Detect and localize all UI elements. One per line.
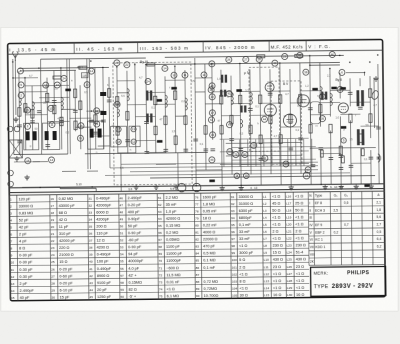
svg-text:L3: L3 bbox=[263, 209, 267, 213]
resistor bbox=[184, 116, 187, 125]
svg-text:31: 31 bbox=[88, 197, 92, 201]
chassis rail step bbox=[59, 187, 61, 189]
resistor bbox=[53, 76, 61, 79]
wire bbox=[310, 114, 330, 116]
wire bbox=[86, 110, 103, 112]
svg-text:68 Ω: 68 Ω bbox=[59, 211, 67, 215]
svg-text:M.F. 452 Kc/s: M.F. 452 Kc/s bbox=[271, 44, 304, 49]
table column group 5 labels (parts 61-75) bbox=[158, 196, 183, 299]
capacitor bbox=[248, 108, 253, 110]
svg-text:115: 115 bbox=[82, 74, 87, 78]
svg-text:18: 18 bbox=[117, 140, 121, 144]
svg-text:110 pF: 110 pF bbox=[96, 232, 108, 236]
svg-text:68: 68 bbox=[159, 245, 163, 249]
svg-text:18 Ω: 18 Ω bbox=[203, 216, 211, 220]
wire bbox=[300, 63, 301, 174]
resistor bbox=[361, 149, 364, 156]
shield box (dashed) bbox=[249, 67, 280, 151]
svg-text:100 pF: 100 pF bbox=[97, 260, 110, 264]
svg-text:84: 84 bbox=[196, 252, 200, 256]
svg-text:0,1 mF: 0,1 mF bbox=[203, 266, 216, 270]
wire bbox=[280, 63, 281, 185]
resistor bbox=[369, 89, 372, 98]
node callout 46 bbox=[329, 51, 335, 57]
wire bbox=[329, 69, 332, 117]
resistor bbox=[164, 116, 167, 125]
svg-text:4 · 13: 4 · 13 bbox=[250, 186, 258, 190]
chassis rail upper bbox=[22, 186, 60, 188]
left coil rail 2 bbox=[85, 152, 208, 153]
capacitor bbox=[163, 149, 168, 151]
svg-text:0,1 mF: 0,1 mF bbox=[239, 223, 252, 227]
capacitor bbox=[376, 127, 381, 129]
svg-text:<1 Ω: <1 Ω bbox=[296, 272, 304, 276]
wire bbox=[117, 92, 127, 94]
svg-text:13: 13 bbox=[85, 83, 89, 87]
wire bbox=[53, 71, 56, 122]
resistor bbox=[369, 114, 372, 123]
svg-text:50 Ω: 50 Ω bbox=[295, 208, 303, 212]
ground bbox=[13, 117, 18, 122]
svg-text:L22: L22 bbox=[286, 237, 291, 241]
wire bbox=[127, 104, 146, 106]
svg-text:0-30 pF: 0-30 pF bbox=[19, 275, 33, 279]
wire bbox=[155, 103, 175, 105]
capacitor (block) bbox=[236, 89, 242, 92]
svg-text:200 Ω: 200 Ω bbox=[96, 225, 106, 229]
svg-text:I. 13,5 - 45 m: I. 13,5 - 45 m bbox=[9, 47, 57, 53]
coil bbox=[117, 109, 119, 117]
node callout 50 bbox=[227, 149, 233, 155]
wire bbox=[370, 150, 372, 184]
antenna bbox=[12, 51, 18, 61]
junction bbox=[211, 63, 212, 64]
svg-text:L5: L5 bbox=[263, 223, 267, 227]
svg-text:15 pF: 15 pF bbox=[60, 295, 70, 299]
wire bbox=[25, 114, 47, 116]
svg-text:20 pF: 20 pF bbox=[97, 288, 107, 292]
svg-text:L9: L9 bbox=[264, 251, 268, 255]
svg-text:<1 Ω: <1 Ω bbox=[272, 216, 280, 220]
junction bbox=[377, 54, 378, 55]
wire bbox=[120, 153, 122, 191]
capacitor (block) bbox=[341, 126, 347, 129]
coil bbox=[32, 102, 34, 110]
capacitor bbox=[369, 157, 374, 159]
svg-text:5,6: 5,6 bbox=[377, 215, 382, 219]
svg-text:63: 63 bbox=[158, 210, 162, 214]
svg-text:220 Ω: 220 Ω bbox=[59, 246, 69, 250]
node callout 5 bbox=[341, 138, 346, 143]
svg-text:L21: L21 bbox=[286, 230, 291, 234]
svg-text:42: 42 bbox=[210, 118, 214, 122]
capacitor (block) bbox=[364, 184, 370, 187]
svg-text:III. 163 - 583 m: III. 163 - 583 m bbox=[140, 46, 190, 52]
header divider bbox=[137, 42, 139, 53]
svg-text:94 pF: 94 pF bbox=[128, 252, 138, 256]
ground bbox=[289, 185, 294, 190]
ground bbox=[323, 184, 328, 189]
svg-text:18: 18 bbox=[51, 211, 55, 215]
svg-text:96: 96 bbox=[231, 230, 235, 234]
node callout 38 bbox=[303, 69, 309, 75]
switch wafer box B bbox=[129, 126, 140, 147]
resistor bbox=[116, 97, 119, 106]
svg-text:MERK:: MERK: bbox=[314, 271, 329, 276]
svg-text:·5' +: ·5' + bbox=[129, 295, 137, 299]
svg-text:5,6: 5,6 bbox=[120, 166, 124, 170]
svg-text:33 mF: 33 mF bbox=[239, 237, 250, 241]
svg-text:<1 Ω: <1 Ω bbox=[296, 279, 304, 283]
capacitor bbox=[318, 148, 323, 150]
wire bbox=[373, 78, 376, 128]
svg-text:49: 49 bbox=[210, 158, 214, 162]
svg-text:0,15MΩ: 0,15MΩ bbox=[128, 280, 142, 284]
svg-text:82 Ω: 82 Ω bbox=[129, 288, 137, 292]
svg-text:1600 pF: 1600 pF bbox=[203, 195, 218, 199]
svg-text:0,1: 0,1 bbox=[200, 142, 204, 146]
wire bbox=[116, 67, 119, 154]
svg-text:12: 12 bbox=[11, 275, 15, 279]
svg-text:2,2: 2,2 bbox=[181, 99, 185, 103]
node callout 16 bbox=[78, 123, 84, 129]
node callout 11 bbox=[131, 139, 136, 144]
antenna lead bbox=[14, 60, 17, 115]
svg-text:0,5: 0,5 bbox=[84, 90, 88, 94]
node callout 35 bbox=[319, 116, 325, 122]
svg-text:101: 101 bbox=[232, 265, 237, 269]
resistor bbox=[309, 124, 312, 133]
junction bbox=[174, 66, 175, 67]
resistor bbox=[220, 125, 223, 134]
svg-text:2,1: 2,1 bbox=[376, 201, 381, 205]
svg-text:310 pF: 310 pF bbox=[59, 232, 72, 236]
svg-text:85: 85 bbox=[196, 259, 200, 263]
svg-text:5 8: 5 8 bbox=[170, 187, 174, 191]
node callout 9 bbox=[18, 82, 24, 88]
wire bbox=[260, 102, 280, 104]
resistor bbox=[319, 104, 322, 113]
junction bbox=[239, 63, 240, 64]
svg-text:58: 58 bbox=[120, 281, 124, 285]
svg-text:41: 41 bbox=[89, 267, 93, 271]
svg-text:50 Ω: 50 Ω bbox=[272, 209, 280, 213]
node callout 11 bbox=[49, 122, 55, 128]
node callout 24 bbox=[209, 61, 215, 67]
tube table labels bbox=[309, 193, 381, 264]
junction bbox=[39, 187, 40, 188]
svg-text:Bу I: Bу I bbox=[77, 65, 82, 69]
svg-text:ECH 3: ECH 3 bbox=[315, 208, 325, 212]
wire bbox=[74, 70, 77, 131]
svg-text:L28: L28 bbox=[287, 279, 292, 283]
svg-text:0-490pF: 0-490pF bbox=[97, 267, 112, 271]
svg-text:29: 29 bbox=[283, 55, 287, 59]
transformer winding bbox=[240, 105, 246, 112]
wire bbox=[351, 162, 371, 164]
svg-text:53: 53 bbox=[120, 245, 124, 249]
wire bbox=[33, 161, 48, 163]
svg-text:86: 86 bbox=[196, 266, 200, 270]
wire bbox=[339, 116, 342, 184]
resistor bbox=[147, 63, 155, 66]
wire bbox=[69, 59, 70, 154]
node callout 24 bbox=[61, 75, 67, 81]
svg-text:4,0 pF: 4,0 pF bbox=[128, 266, 139, 270]
wire bbox=[25, 84, 69, 86]
svg-text:VI: VI bbox=[310, 238, 313, 242]
resistor bbox=[249, 125, 252, 134]
wire bbox=[250, 114, 270, 116]
resistor bbox=[269, 115, 272, 124]
svg-text:2 Ω: 2 Ω bbox=[239, 265, 245, 269]
svg-text:L4: L4 bbox=[263, 216, 267, 220]
svg-text:33000 Ω: 33000 Ω bbox=[239, 195, 254, 199]
svg-text:L10: L10 bbox=[264, 258, 269, 262]
capacitor (block) bbox=[33, 131, 37, 140]
wire bbox=[310, 56, 311, 185]
ground bbox=[220, 185, 225, 190]
svg-text:1,0: 1,0 bbox=[217, 77, 221, 81]
svg-text:1,8: 1,8 bbox=[376, 208, 381, 212]
capacitor (block) bbox=[157, 140, 163, 143]
node callout 16 bbox=[209, 83, 215, 89]
svg-text:II. 45 - 163 m: II. 45 - 163 m bbox=[76, 46, 124, 52]
svg-text:L20: L20 bbox=[286, 223, 291, 227]
svg-text:32: 32 bbox=[89, 204, 93, 208]
junction bbox=[60, 67, 61, 68]
circle 18a bbox=[234, 173, 240, 179]
bus wire bbox=[165, 55, 344, 57]
svg-text:4: 4 bbox=[10, 219, 12, 223]
wire bbox=[290, 69, 291, 185]
svg-text:2,2: 2,2 bbox=[327, 74, 331, 78]
capacitor bbox=[17, 125, 22, 127]
svg-text:1,2: 1,2 bbox=[305, 84, 309, 88]
svg-text:16 Ω: 16 Ω bbox=[273, 293, 281, 297]
resistor bbox=[359, 134, 362, 143]
svg-text:59: 59 bbox=[120, 288, 124, 292]
svg-text:0-90 pF: 0-90 pF bbox=[128, 231, 142, 235]
svg-text:97: 97 bbox=[231, 237, 235, 241]
resistor bbox=[339, 146, 342, 155]
capacitor bbox=[107, 100, 112, 102]
table top border bbox=[9, 191, 384, 195]
wire bbox=[346, 71, 365, 73]
svg-text:L18: L18 bbox=[286, 208, 291, 212]
wire bbox=[76, 126, 92, 128]
svg-text:14: 14 bbox=[11, 289, 15, 293]
resistor bbox=[154, 96, 157, 105]
capacitor (block) bbox=[312, 88, 318, 91]
svg-text:42000pF: 42000pF bbox=[96, 203, 112, 207]
svg-text:73: 73 bbox=[159, 280, 163, 284]
resistor bbox=[108, 89, 111, 98]
tube B7 bbox=[338, 103, 348, 113]
svg-text:L26: L26 bbox=[287, 265, 292, 269]
header band divider line bbox=[8, 50, 383, 54]
resistor bbox=[299, 95, 302, 104]
svg-text:L16: L16 bbox=[286, 194, 291, 198]
circle 18c bbox=[303, 172, 310, 179]
capacitor bbox=[193, 139, 198, 141]
svg-text:12 Ω: 12 Ω bbox=[97, 239, 105, 243]
svg-text:33000 Ω: 33000 Ω bbox=[19, 204, 34, 208]
svg-text:64: 64 bbox=[158, 217, 162, 221]
resistor bbox=[126, 111, 129, 120]
svg-text:51: 51 bbox=[263, 156, 267, 160]
svg-text:0-90pF: 0-90pF bbox=[128, 217, 141, 221]
capacitor bbox=[59, 121, 64, 123]
transformer winding bbox=[221, 75, 227, 83]
node callout 13 bbox=[54, 82, 60, 88]
svg-text:40000pF: 40000pF bbox=[128, 259, 144, 263]
junction bbox=[12, 61, 13, 62]
svg-text:51-4: 51-4 bbox=[296, 251, 304, 255]
table column group 2 grid bbox=[50, 195, 58, 301]
svg-text:16 Ω: 16 Ω bbox=[296, 293, 304, 297]
svg-text:56: 56 bbox=[120, 267, 124, 271]
wire bbox=[339, 73, 341, 99]
svg-text:L1: L1 bbox=[263, 195, 267, 199]
junction bbox=[116, 66, 117, 67]
resistor bbox=[24, 104, 27, 113]
wire bbox=[94, 68, 97, 149]
ground bbox=[174, 184, 179, 189]
node callout 79 bbox=[233, 152, 239, 158]
svg-text:4,7: 4,7 bbox=[57, 116, 61, 120]
wire bbox=[134, 63, 137, 154]
wire bbox=[146, 91, 165, 93]
svg-text:9100 pF: 9100 pF bbox=[97, 281, 112, 285]
heater rail bbox=[150, 176, 375, 178]
node callout 41 bbox=[226, 91, 232, 97]
capacitor bbox=[125, 140, 130, 142]
node callout 15 bbox=[25, 158, 31, 164]
wire bbox=[136, 139, 156, 141]
svg-text:13: 13 bbox=[56, 83, 60, 87]
capacitor bbox=[93, 132, 98, 134]
svg-text:9: 9 bbox=[11, 254, 13, 258]
band switch contact mesh bbox=[220, 138, 316, 167]
svg-text:120 pF: 120 pF bbox=[19, 197, 32, 201]
coil bbox=[127, 89, 129, 101]
capacitor bbox=[144, 122, 149, 124]
wire bbox=[102, 68, 105, 149]
resistor bbox=[18, 108, 21, 117]
svg-text:23: 23 bbox=[115, 61, 119, 65]
svg-text:<1 Ω: <1 Ω bbox=[273, 272, 281, 276]
svg-text:29: 29 bbox=[51, 288, 55, 292]
svg-text:L27: L27 bbox=[287, 272, 292, 276]
svg-text:<1 Ω: <1 Ω bbox=[272, 194, 280, 198]
junction bbox=[134, 64, 135, 65]
node callout 12 bbox=[94, 108, 100, 114]
svg-text:67: 67 bbox=[158, 238, 162, 242]
svg-text:79: 79 bbox=[234, 153, 238, 157]
junction bbox=[349, 62, 350, 63]
wire bbox=[359, 78, 361, 86]
svg-text:65: 65 bbox=[158, 224, 162, 228]
svg-text:17: 17 bbox=[211, 111, 215, 115]
svg-text:1,8 MΩ: 1,8 MΩ bbox=[203, 202, 216, 206]
svg-text:3,3: 3,3 bbox=[245, 88, 249, 92]
junction bbox=[12, 77, 13, 78]
svg-text:-60 pF: -60 pF bbox=[128, 238, 140, 242]
svg-text:μ IV: μ IV bbox=[244, 71, 251, 75]
svg-text:27: 27 bbox=[51, 274, 55, 278]
table column group 6 labels (parts 76-90) bbox=[195, 195, 219, 298]
svg-text:B V: B V bbox=[283, 82, 289, 86]
svg-text:13: 13 bbox=[11, 282, 15, 286]
svg-text:0-490pF: 0-490pF bbox=[97, 253, 112, 257]
tube B4 bbox=[265, 83, 274, 92]
svg-text:80: 80 bbox=[195, 224, 199, 228]
svg-text:EF 9: EF 9 bbox=[315, 223, 322, 227]
node callout 29 bbox=[282, 54, 288, 60]
svg-text:L23: L23 bbox=[287, 244, 292, 248]
resistor bbox=[279, 95, 282, 104]
svg-text:1,2: 1,2 bbox=[94, 110, 98, 114]
wire bbox=[18, 71, 21, 155]
resistor bbox=[259, 135, 262, 144]
resistor bbox=[53, 105, 56, 114]
wire bbox=[154, 66, 157, 153]
svg-text:2893V - 292V: 2893V - 292V bbox=[332, 284, 374, 290]
bus wire bbox=[146, 62, 340, 64]
svg-text:12: 12 bbox=[172, 73, 176, 77]
wire bbox=[240, 64, 241, 186]
switch wafer box A bbox=[111, 126, 127, 147]
svg-text:25 Ω: 25 Ω bbox=[295, 201, 303, 205]
node callout 10 bbox=[209, 94, 215, 100]
svg-text:44: 44 bbox=[89, 288, 93, 292]
svg-text:11 pF: 11 pF bbox=[59, 225, 69, 229]
node callout 16 bbox=[208, 87, 214, 93]
resistor bbox=[60, 117, 63, 126]
svg-text:400 pF: 400 pF bbox=[128, 210, 141, 214]
wire bbox=[175, 115, 185, 117]
svg-text:0,1: 0,1 bbox=[54, 86, 58, 90]
junction bbox=[320, 184, 321, 185]
wire bbox=[320, 151, 322, 185]
svg-text:11: 11 bbox=[50, 123, 53, 127]
svg-text:<1 Ω: <1 Ω bbox=[295, 194, 303, 198]
junction bbox=[329, 68, 330, 69]
outer schematic frame bbox=[8, 39, 386, 300]
svg-text:50: 50 bbox=[228, 150, 232, 154]
resistor bbox=[74, 121, 77, 130]
svg-text:61: 61 bbox=[158, 196, 162, 200]
svg-text:10: 10 bbox=[211, 95, 215, 99]
header divider bbox=[73, 43, 75, 54]
svg-text:4200 Ω: 4200 Ω bbox=[97, 246, 110, 250]
coil bbox=[61, 97, 63, 109]
wire bbox=[20, 69, 75, 72]
svg-text:45 Ω: 45 Ω bbox=[272, 202, 280, 206]
svg-text:15 Ω: 15 Ω bbox=[273, 251, 281, 255]
node callout 13 bbox=[84, 82, 90, 88]
svg-text:2 Ω: 2 Ω bbox=[272, 230, 278, 234]
svg-text:103: 103 bbox=[232, 279, 237, 283]
header divider bbox=[305, 40, 307, 51]
capacitor (block) bbox=[65, 89, 71, 92]
wire bbox=[250, 69, 251, 174]
svg-text:KC 1: KC 1 bbox=[315, 238, 323, 242]
svg-text:0-20 pF: 0-20 pF bbox=[59, 281, 73, 285]
wire bbox=[13, 77, 38, 79]
wire bbox=[270, 90, 290, 92]
